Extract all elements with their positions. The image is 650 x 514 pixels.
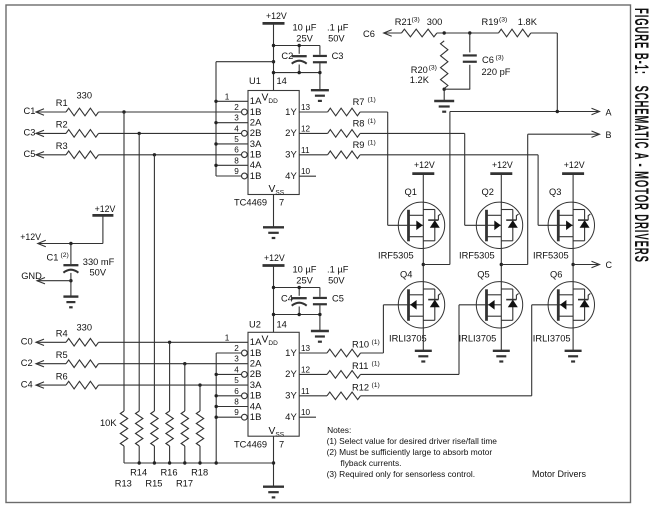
svg-text:12: 12 [301,365,311,374]
wire column 1 down [123,112,125,411]
svg-text:flyback currents.: flyback currents. [341,458,402,468]
wire bank common bottom [124,462,274,464]
svg-text:11: 11 [301,146,310,155]
node drain Q1 [422,263,425,266]
svg-text:R4: R4 [56,329,68,339]
node junction R6 [198,383,201,386]
driver U2 TC4469 [248,332,299,436]
ground under C5 [311,330,329,332]
svg-text:Q6: Q6 [550,270,562,280]
wire source Q6 [572,328,574,351]
wire VDD U2 vertical [273,266,275,333]
svg-text:7: 7 [279,440,284,450]
wire output C [573,264,599,266]
svg-text:3A: 3A [250,380,262,391]
node bank junction [153,461,156,464]
svg-text:3: 3 [234,114,239,123]
svg-text:2B: 2B [250,369,262,380]
svg-text:C1: C1 [47,253,59,263]
svg-text:25V: 25V [296,33,313,43]
svg-text:10: 10 [301,408,311,417]
svg-text:4: 4 [234,365,239,374]
svg-text:10: 10 [301,167,311,176]
svg-text:1: 1 [225,333,230,342]
svg-text:2: 2 [234,103,239,112]
svg-text:IRF5305: IRF5305 [533,251,569,261]
svg-text:IRF5305: IRF5305 [459,251,495,261]
svg-text:R3: R3 [56,141,68,151]
svg-text:+12V: +12V [564,160,585,170]
svg-text:3Y: 3Y [285,150,297,161]
svg-text:FIGURE B-1: SCHEMATIC A - MO: FIGURE B-1: SCHEMATIC A - MOTOR DRIVERS [630,8,650,263]
svg-text:R2: R2 [56,120,68,130]
wire cap bottom [274,72,320,74]
node bus-bottom junction [215,461,218,464]
node junction R4 [168,341,171,344]
svg-text:(3) Required only for sensorle: (3) Required only for sensorless control… [327,469,476,479]
U1 pin 6 (1B) [242,152,248,158]
wire C6 to R21 [384,32,402,34]
node C1 top junction [69,242,72,245]
wire R4 to U2 [99,341,249,343]
wire output A [449,112,451,265]
svg-text:50V: 50V [328,33,345,43]
U1 input bus [215,62,217,176]
U2 pin 6 (1B) [216,395,241,397]
svg-text:C2: C2 [21,358,33,368]
svg-text:R16: R16 [160,467,177,477]
svg-text:4: 4 [234,124,239,133]
svg-text:2A: 2A [250,359,262,370]
node bank junction [168,461,171,464]
svg-text:IRLI3705: IRLI3705 [533,334,571,344]
svg-text:13: 13 [301,344,311,353]
wire gate Q3 [538,224,559,226]
svg-text:C5: C5 [24,149,36,159]
svg-text:Motor Drivers: Motor Drivers [532,469,587,479]
svg-text:2Y: 2Y [285,128,297,139]
svg-text:R10: R10 [352,340,369,350]
wire cap top [274,45,320,47]
svg-text:IRLI3705: IRLI3705 [389,334,427,344]
svg-text:R14: R14 [130,467,147,477]
svg-text:(2) Must be sufficiently large: (2) Must be sufficiently large to absorb… [327,447,493,457]
svg-text:2A: 2A [250,117,262,128]
node bus tie [272,60,275,63]
wire gate Q5 [459,304,488,306]
wire VSS U1 [273,195,275,228]
wire Q1 drain to A branch [423,264,450,266]
svg-text:1B: 1B [250,412,262,423]
svg-text:+12V: +12V [266,11,287,21]
wire C5 to R3 [36,154,66,156]
svg-text:9: 9 [234,167,239,176]
node C6 top [468,31,471,34]
wire C4 to R6 [36,384,66,386]
resistor R18 10K [196,411,203,446]
node VDD-bottom junction [272,71,275,74]
svg-text:3Y: 3Y [285,391,297,402]
U2 pin 9 (1B) [216,416,241,418]
svg-text:1B: 1B [250,107,262,118]
node VDD-top junction [272,44,275,47]
wire column 3 down [153,155,155,411]
ground under Q5 [493,350,510,352]
wire R21 to R19 [437,32,499,34]
svg-text:R18: R18 [191,467,208,477]
svg-text:(1): (1) [372,339,380,346]
svg-text:(1): (1) [372,361,380,368]
svg-text:C6: C6 [363,29,375,39]
svg-text:R19: R19 [482,17,499,27]
wire drain node Q2 [500,249,502,282]
svg-text:1B: 1B [250,171,262,182]
svg-text:10 µF: 10 µF [293,23,317,33]
ground under Q6 [565,350,582,352]
wire +12V down [102,215,104,243]
svg-text:220 pF: 220 pF [482,67,511,77]
svg-text:(3): (3) [429,64,437,71]
svg-text:8: 8 [234,156,239,165]
svg-text:Q1: Q1 [405,187,417,197]
resistor R14 10K [136,411,143,446]
svg-text:1B: 1B [250,391,262,402]
svg-text:1Y: 1Y [285,107,297,118]
ground under C3 [311,89,329,91]
svg-text:C3: C3 [332,51,344,61]
svg-text:6: 6 [234,146,239,155]
svg-text:4Y: 4Y [285,412,297,423]
ground under C1 [63,295,78,297]
svg-text:R15: R15 [145,479,162,489]
svg-text:C2: C2 [281,51,293,61]
svg-text:R1: R1 [56,98,68,108]
svg-text:R6: R6 [56,371,68,381]
node drain Q3 [571,263,574,266]
U1 pin 4 (2B) [242,130,248,136]
wire C0 to R4 [36,341,66,343]
svg-text:12: 12 [301,124,311,133]
svg-text:330: 330 [77,323,93,333]
svg-text:9: 9 [234,408,239,417]
svg-text:B: B [606,130,612,140]
svg-text:Q2: Q2 [482,187,494,197]
svg-text:3: 3 [234,355,239,364]
svg-text:IRLI3705: IRLI3705 [459,334,497,344]
node junction R2 [138,132,141,135]
svg-text:50V: 50V [90,267,107,277]
svg-text:10K: 10K [100,418,117,428]
node VSS junction [272,461,275,464]
svg-text:(3): (3) [412,16,420,23]
svg-text:10 µF: 10 µF [293,265,317,275]
node GND junction [69,279,72,282]
node bank junction [183,461,186,464]
wire R3 to U1 [99,154,242,156]
svg-text:Q5: Q5 [477,270,489,280]
wire gate Q2 [465,224,488,226]
svg-text:.1 µF: .1 µF [327,265,349,275]
resistor R13 10K [120,411,127,446]
svg-text:R21: R21 [395,17,412,27]
svg-text:3A: 3A [250,139,262,150]
svg-text:1B: 1B [250,348,262,359]
wire C1 to R1 [36,111,66,113]
wire +12V horizontal [38,243,103,245]
wire source Q4 [422,328,424,351]
node drain Q2 [500,263,503,266]
svg-text:14: 14 [277,320,287,330]
svg-text:+12V: +12V [95,204,116,214]
svg-text:7: 7 [279,198,284,208]
wire R12 to gate [361,395,532,397]
ground under U2 VSS [263,486,284,488]
wire drain node Q3 [572,249,574,282]
svg-text:5: 5 [234,376,239,385]
node R20 bottom [443,88,446,91]
node junction R5 [183,362,186,365]
node bank junction [198,461,201,464]
U1 pin 1 (1A) [216,100,248,102]
resistor R17 10K [181,411,188,446]
U1 pin 2 (1B) [242,109,248,115]
wire output B [501,264,527,266]
svg-text:C: C [606,260,613,270]
wire cap bottom U2 [274,314,320,316]
svg-text:+12V: +12V [492,160,513,170]
wire C3 to R2 [36,132,66,134]
ground U1 VSS [263,226,284,228]
wire R10 to gate [361,352,384,354]
svg-text:C4: C4 [21,379,33,389]
svg-text:C3: C3 [24,128,36,138]
svg-text:(1) Select value for desired d: (1) Select value for desired driver rise… [327,436,498,446]
svg-text:C0: C0 [21,337,33,347]
wire source Q5 [500,328,502,351]
svg-text:R20: R20 [411,65,428,75]
svg-text:R11: R11 [352,361,368,371]
U1 pin 8 (4A) [216,164,248,166]
wire R7 to gate [360,111,388,113]
svg-text:50V: 50V [328,276,345,286]
svg-text:11: 11 [301,387,310,396]
wire C2 to R5 [36,363,66,365]
svg-text:4A: 4A [250,160,262,171]
svg-text:330: 330 [77,90,93,100]
svg-text:(3): (3) [499,16,507,23]
wire R20-C6 bottom [444,88,470,90]
svg-text:R17: R17 [176,479,193,489]
svg-text:14: 14 [277,76,287,86]
ground under R20 [443,89,445,101]
svg-text:Notes:: Notes: [327,425,351,435]
svg-text:R5: R5 [56,350,68,360]
svg-text:1A: 1A [250,96,262,107]
svg-text:R12: R12 [352,382,369,392]
wire column 6 down [199,385,201,411]
U2 pin 2 (1B) [216,352,241,354]
svg-text:(1): (1) [372,382,380,389]
svg-text:1Y: 1Y [285,348,297,359]
svg-text:A: A [606,107,612,117]
svg-text:25V: 25V [296,276,313,286]
svg-text:U2: U2 [249,320,261,330]
svg-text:(2): (2) [61,252,69,259]
svg-text:6: 6 [234,387,239,396]
svg-text:C1: C1 [24,106,36,116]
svg-text:4A: 4A [250,401,262,412]
svg-text:1.2K: 1.2K [410,75,430,85]
svg-text:R7: R7 [353,97,365,107]
svg-text:C6: C6 [482,55,494,65]
wire column 2 down [138,133,140,411]
svg-text:(1): (1) [368,118,376,125]
svg-text:U1: U1 [249,76,261,86]
driver U1 TC4469 [248,91,299,195]
resistor R15 10K [151,411,158,446]
node R20 top [443,31,446,34]
resistor R16 10K [166,411,173,446]
svg-text:Q3: Q3 [549,187,561,197]
svg-text:1: 1 [225,92,230,101]
wire R6 to U2 [99,384,249,386]
svg-text:+12V: +12V [264,253,285,263]
U1 pin 3 (2A) [216,122,248,124]
node output C [592,261,600,267]
U2 input bus [215,353,217,463]
svg-text:(1): (1) [368,139,376,146]
wire VSS U2 [273,436,275,487]
svg-text:300: 300 [427,17,443,27]
U1 pin 5 (3A) [216,143,248,145]
svg-text:330 mF: 330 mF [83,257,115,267]
svg-text:C4: C4 [281,294,293,304]
wire gate Q1 [388,224,410,226]
wire R9 to gate [360,154,538,156]
wire R19 branch down to A [556,33,558,112]
ground under Q4 [415,350,432,352]
svg-text:1.8K: 1.8K [518,17,538,27]
svg-text:2B: 2B [250,128,262,139]
wire R11 to gate [361,373,460,375]
svg-text:(1): (1) [368,97,376,104]
wire R1 to U1 [99,111,242,113]
wire R19 right [531,32,558,34]
wire R2 to U1 [99,132,242,134]
svg-text:IRF5305: IRF5305 [378,251,414,261]
node junction R3 [153,153,156,156]
node bank junction [138,461,141,464]
svg-text:TC4469: TC4469 [234,198,267,208]
svg-text:TC4469: TC4469 [234,440,267,450]
svg-text:R13: R13 [115,479,132,489]
wire R8 to gate [360,132,465,134]
node output A [592,108,600,114]
svg-text:Q4: Q4 [400,270,412,280]
U1 pin 9 (1B) [216,175,242,177]
svg-text:.1 µF: .1 µF [327,23,349,33]
svg-text:8: 8 [234,398,239,407]
wire R5 to U2 [99,363,249,365]
wire gate Q6 [532,304,560,306]
svg-text:R9: R9 [353,140,365,150]
svg-text:1A: 1A [250,337,262,348]
wire cap top U2 [274,287,320,289]
svg-text:2Y: 2Y [285,369,297,380]
svg-text:1B: 1B [250,149,262,160]
svg-text:+12V: +12V [414,160,435,170]
svg-text:+12V: +12V [20,232,41,242]
svg-text:5: 5 [234,135,239,144]
node junction R1 [122,110,125,113]
node output B [592,131,600,137]
wire column 4 down [169,342,171,411]
svg-text:2: 2 [234,344,239,353]
svg-text:13: 13 [301,103,311,112]
node A/R19 junction [556,110,559,113]
svg-text:R8: R8 [353,118,365,128]
wire column 5 down [184,364,186,411]
svg-text:C5: C5 [332,294,344,304]
wire gate Q4 [383,304,409,306]
wire drain node Q1 [422,249,424,282]
U2 pin 8 (4A) [216,406,248,408]
svg-text:4Y: 4Y [285,171,297,182]
wire VDD U1 vertical [273,23,275,90]
U2 pin 4 (2B) [216,373,241,375]
svg-text:(3): (3) [496,54,504,61]
